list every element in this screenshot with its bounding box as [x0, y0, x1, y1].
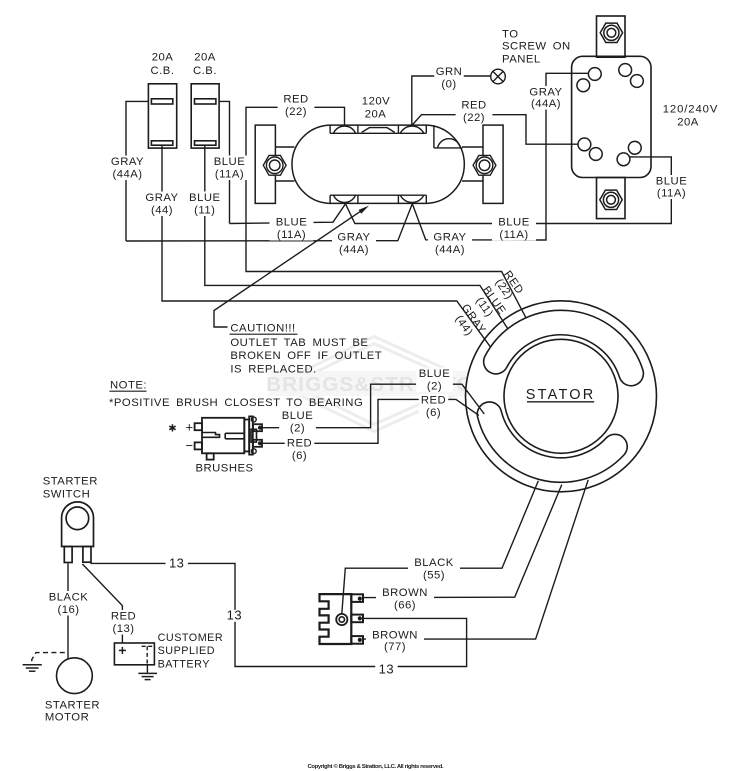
label BLUE (11A) far right	[650, 175, 694, 199]
starter motor	[57, 658, 93, 694]
svg-text:BLUE: BLUE	[214, 156, 246, 168]
label BLUE (2) at brushes	[279, 410, 316, 435]
svg-text:(11A): (11A)	[657, 188, 686, 200]
label RED (6) at stator	[419, 394, 449, 419]
svg-text:(2): (2)	[427, 381, 442, 393]
connector body underlay	[320, 594, 352, 644]
label RED (22) left	[278, 93, 315, 118]
wire BLUE(11)	[205, 145, 508, 329]
wire RED(6)	[262, 399, 479, 443]
svg-text:(44A): (44A)	[435, 244, 465, 256]
svg-text:GRAY: GRAY	[145, 192, 178, 204]
svg-text:NOTE:: NOTE:	[110, 380, 147, 392]
label BLUE (2) at stator	[416, 368, 453, 393]
svg-text:BLUE: BLUE	[189, 192, 221, 204]
svg-text:OUTLET TAB MUST BE: OUTLET TAB MUST BE	[230, 337, 368, 349]
wire GRAY(44A) from CB1 top	[126, 101, 148, 241]
svg-text:(6): (6)	[426, 407, 441, 419]
svg-text:(77): (77)	[384, 641, 406, 653]
svg-text:20A: 20A	[152, 52, 174, 64]
receptacle 120/240V 20A	[597, 16, 626, 57]
svg-text:GRAY: GRAY	[433, 232, 466, 244]
svg-text:(11A): (11A)	[499, 229, 528, 241]
ground symbol (battery)	[146, 665, 148, 673]
wire BLUE(11A) bus left	[230, 204, 346, 224]
label BLACK (55)	[408, 557, 460, 582]
svg-text:(0): (0)	[441, 79, 456, 91]
stator disc underlay	[466, 301, 657, 492]
svg-text:C.B.: C.B.	[151, 65, 175, 77]
hex nut 120/240 top	[600, 23, 622, 42]
svg-text:13: 13	[379, 662, 394, 677]
svg-text:120V: 120V	[362, 96, 390, 108]
label BLUE (11A) cb2	[208, 156, 252, 181]
svg-text:(66): (66)	[394, 600, 416, 612]
svg-text:GRN: GRN	[436, 66, 463, 78]
svg-text:CUSTOMER: CUSTOMER	[158, 632, 224, 644]
wire RED(13)	[82, 564, 122, 643]
wire BLUE(11A) bus right	[346, 157, 672, 224]
label RED (22) right	[456, 99, 493, 124]
label GRAY (44A) left	[106, 156, 150, 181]
label BLUE (11)	[186, 192, 223, 217]
wire BLACK(16)	[67, 563, 69, 659]
svg-text:−: −	[186, 438, 194, 453]
wire BLUE(11A) from CB2 top	[219, 101, 229, 223]
starter switch	[62, 502, 94, 547]
label BROWN (66)	[376, 587, 434, 612]
svg-text:GRAY: GRAY	[337, 232, 370, 244]
circuit breaker CB2 20A	[191, 84, 219, 148]
label GRAY (44A) bottom-right	[428, 231, 472, 256]
svg-text:(11): (11)	[194, 205, 215, 217]
svg-text:BATTERY: BATTERY	[158, 659, 210, 671]
hex nut 120/240 bottom	[600, 190, 622, 209]
svg-text:(22): (22)	[463, 112, 485, 124]
label GRAY (44A) top	[524, 86, 568, 110]
svg-text:IS REPLACED.: IS REPLACED.	[230, 364, 316, 376]
svg-text:(11A): (11A)	[215, 169, 244, 181]
svg-text:BROWN: BROWN	[372, 629, 418, 641]
label RED (13)	[105, 610, 142, 635]
wire GRAY(44)	[162, 145, 491, 348]
svg-text:STARTER: STARTER	[43, 476, 98, 488]
svg-text:(44A): (44A)	[112, 169, 142, 181]
svg-text:BROWN: BROWN	[382, 587, 428, 599]
ground symbol (starter motor)	[32, 653, 65, 665]
wire 13	[90, 563, 466, 666]
svg-text:Copyright © Briggs & Stratton,: Copyright © Briggs & Stratton, LLC. All …	[308, 763, 444, 770]
panel screw symbol	[491, 69, 506, 84]
receptacle 120V 20A duplex	[288, 126, 468, 202]
label BLUE (11A) below recept	[270, 216, 314, 241]
brush holder assembly	[202, 418, 244, 454]
connector (engine harness)	[320, 594, 352, 644]
svg-text:BLUE: BLUE	[276, 217, 308, 229]
svg-text:TO: TO	[502, 29, 518, 41]
svg-text:(11A): (11A)	[277, 229, 306, 241]
svg-text:BLUE: BLUE	[656, 176, 688, 188]
svg-text:(44): (44)	[151, 205, 173, 217]
svg-text:(13): (13)	[112, 623, 134, 635]
svg-text:(6): (6)	[292, 450, 307, 462]
wire GRN(0)	[412, 76, 491, 126]
battery (customer supplied)	[114, 643, 154, 665]
svg-text:RED: RED	[421, 395, 446, 407]
svg-text:(44A): (44A)	[339, 244, 369, 256]
label BLACK (16)	[47, 591, 91, 616]
svg-text:C.B.: C.B.	[193, 65, 217, 77]
label BROWN (77)	[366, 629, 424, 653]
circuit breaker CB1 20A	[148, 84, 176, 148]
label 13 a	[166, 558, 188, 570]
wire BLACK(55) leader	[342, 481, 539, 614]
label GRAY (44A) bottom-left	[332, 231, 376, 256]
svg-text:*POSITIVE BRUSH CLOSEST TO BEA: *POSITIVE BRUSH CLOSEST TO BEARING	[109, 397, 363, 409]
wire BROWN(77)	[363, 480, 588, 639]
label GRAY (44) rotated	[449, 302, 487, 343]
wire GRAY(44A) tab to 120/240	[412, 73, 588, 240]
svg-text:BRUSHES: BRUSHES	[195, 463, 253, 475]
svg-text:SWITCH: SWITCH	[43, 489, 91, 501]
svg-text:20A: 20A	[194, 52, 216, 64]
svg-text:RED: RED	[287, 438, 312, 450]
wire GRAY(44A) bus y241	[126, 204, 412, 241]
wire RED(22) left	[246, 107, 526, 317]
svg-text:BLACK: BLACK	[414, 557, 454, 569]
svg-text:RED: RED	[283, 94, 308, 106]
svg-text:✱: ✱	[168, 423, 177, 434]
svg-text:120/240V: 120/240V	[663, 104, 719, 116]
hex nut right ear	[473, 155, 496, 175]
label GRN (0)	[434, 66, 464, 91]
svg-text:20A: 20A	[677, 117, 699, 129]
svg-text:PANEL: PANEL	[502, 54, 541, 66]
svg-text:SCREW ON: SCREW ON	[502, 41, 571, 53]
svg-text:BROKEN OFF IF OUTLET: BROKEN OFF IF OUTLET	[230, 350, 382, 362]
svg-text:GRAY: GRAY	[529, 87, 562, 99]
wire BROWN(66)	[363, 485, 562, 598]
label GRAY (44)	[144, 192, 181, 217]
svg-text:BLUE: BLUE	[498, 217, 530, 229]
label BLUE (11) rotated	[470, 284, 507, 323]
svg-text:RED: RED	[111, 611, 136, 623]
svg-text:RED: RED	[461, 100, 486, 112]
label RED (22) rotated	[492, 269, 526, 303]
svg-text:13: 13	[169, 556, 184, 571]
svg-text:STATOR: STATOR	[526, 387, 596, 403]
svg-text:(44A): (44A)	[531, 98, 561, 110]
svg-text:GRAY: GRAY	[111, 156, 144, 168]
label RED (6) at brushes	[285, 437, 315, 462]
label 13 c	[375, 664, 397, 676]
svg-text:20A: 20A	[365, 109, 387, 121]
svg-text:MOTOR: MOTOR	[45, 712, 89, 724]
svg-text:(16): (16)	[57, 604, 79, 616]
caution leader arrow	[214, 210, 362, 327]
receptacle 120/240 underlay	[572, 56, 651, 177]
svg-text:CAUTION!!!: CAUTION!!!	[230, 323, 295, 335]
label 13 b	[223, 610, 245, 622]
hex nut left ear	[263, 155, 286, 175]
svg-text:+: +	[186, 419, 194, 434]
wire RED(22) right	[412, 115, 578, 145]
svg-text:BLUE: BLUE	[282, 410, 314, 422]
stator	[466, 301, 657, 492]
svg-text:(55): (55)	[423, 570, 445, 582]
label BLUE (11A) right-mid	[492, 216, 536, 241]
svg-text:STARTER: STARTER	[45, 700, 100, 712]
svg-text:(2): (2)	[290, 423, 305, 435]
svg-text:BLACK: BLACK	[49, 592, 89, 604]
svg-text:13: 13	[227, 607, 242, 622]
svg-text:(22): (22)	[285, 106, 307, 118]
wire BLUE(2)	[262, 384, 484, 428]
svg-text:BLUE: BLUE	[419, 368, 451, 380]
watermark	[277, 337, 479, 432]
svg-text:SUPPLIED: SUPPLIED	[158, 645, 215, 657]
